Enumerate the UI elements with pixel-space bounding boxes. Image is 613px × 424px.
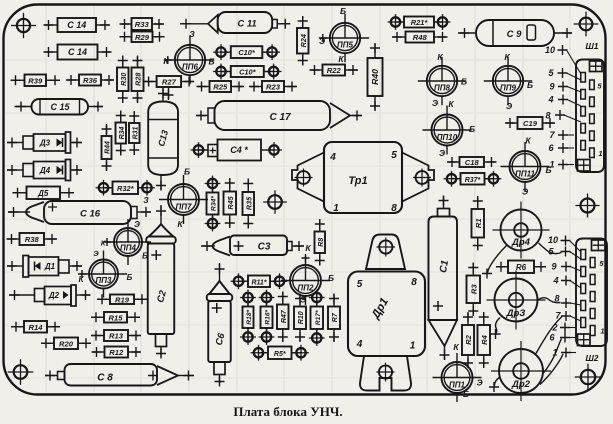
capacitor C6: [207, 263, 233, 387]
svg-text:ПП5: ПП5: [337, 41, 354, 50]
svg-text:Тр1: Тр1: [348, 175, 367, 187]
svg-text:R13: R13: [109, 332, 124, 341]
svg-text:4: 4: [329, 152, 336, 163]
svg-text:Б: Б: [127, 273, 133, 282]
svg-text:R6: R6: [516, 263, 527, 272]
node Ш2 pin 6: [549, 333, 575, 343]
svg-text:R12: R12: [109, 348, 124, 357]
resistor R5*: [251, 345, 309, 361]
resistor R13: [91, 330, 141, 341]
capacitor C18: [447, 157, 497, 167]
resistor R44: [102, 124, 112, 171]
svg-text:4: 4: [356, 339, 363, 350]
svg-text:ПП2: ПП2: [298, 284, 315, 293]
resistor R6: [496, 261, 546, 274]
diode Д4: [7, 160, 82, 181]
svg-text:К: К: [504, 52, 510, 62]
resistor R48: [392, 32, 448, 43]
svg-text:R14: R14: [29, 323, 44, 332]
resistor R8: [315, 219, 326, 266]
resistor R34: [116, 111, 127, 156]
svg-text:Б: Б: [184, 167, 190, 177]
resistor R11*: [231, 273, 288, 289]
resistor R47: [277, 292, 289, 343]
resistor R16*: [259, 290, 275, 345]
svg-text:R19: R19: [115, 295, 130, 304]
node Ш2 pin 8: [554, 294, 581, 309]
svg-text:8: 8: [554, 294, 559, 304]
resistor R25: [197, 81, 245, 92]
node Ш1 pin 5: [548, 68, 581, 80]
svg-text:C 15: C 15: [50, 102, 70, 112]
diode Д1: [7, 256, 82, 278]
svg-text:Б: Б: [469, 124, 475, 134]
svg-text:Б: Б: [461, 77, 467, 87]
svg-text:R36: R36: [83, 76, 98, 85]
resistor R18*: [240, 290, 256, 345]
svg-text:ПП4: ПП4: [120, 244, 137, 253]
svg-text:C 11: C 11: [237, 19, 256, 30]
resistor R19: [97, 294, 147, 304]
svg-text:R2: R2: [464, 334, 473, 344]
node Ш1 pin 8: [545, 110, 581, 122]
node Ш1 pin 4: [547, 95, 581, 107]
svg-text:R48: R48: [413, 33, 428, 42]
transistor ПП10: [423, 99, 476, 158]
svg-text:9: 9: [549, 82, 554, 92]
svg-text:R4: R4: [480, 334, 489, 344]
resistor R17*: [309, 290, 325, 346]
svg-text:R25: R25: [213, 83, 228, 92]
svg-text:R22: R22: [327, 66, 342, 75]
capacitor C14 (second): [44, 45, 112, 60]
svg-text:R7: R7: [332, 312, 339, 322]
svg-text:8: 8: [391, 203, 397, 214]
svg-text:R45: R45: [226, 195, 235, 209]
svg-text:R16*: R16*: [265, 309, 272, 324]
transistor ПП2: [281, 243, 334, 305]
svg-text:Э: Э: [300, 295, 306, 305]
svg-text:R30: R30: [119, 73, 128, 86]
svg-text:Э: Э: [476, 378, 482, 388]
svg-text:5: 5: [357, 279, 363, 290]
svg-text:8: 8: [545, 111, 550, 121]
svg-text:R20: R20: [59, 339, 74, 348]
resistor R20: [41, 338, 91, 350]
mounting hole bottom-right: [575, 364, 601, 390]
svg-text:R32*: R32*: [117, 184, 135, 193]
node Ш2 pin 5: [548, 247, 581, 260]
svg-text:ПП3: ПП3: [96, 276, 113, 285]
svg-text:R35: R35: [244, 196, 253, 210]
resistor R40: [368, 43, 383, 111]
svg-text:10: 10: [548, 235, 558, 245]
transistor ПП8: [418, 52, 467, 108]
resistor R39: [11, 75, 61, 87]
svg-text:R47: R47: [281, 309, 288, 323]
svg-text:C3: C3: [258, 242, 271, 253]
svg-text:ПП7: ПП7: [176, 203, 193, 212]
svg-text:R3: R3: [469, 284, 478, 294]
capacitor C19: [505, 117, 555, 129]
node Ш2 pin 10: [548, 235, 581, 252]
svg-text:C 14: C 14: [68, 47, 87, 57]
svg-text:Д5: Д5: [37, 189, 49, 198]
svg-text:4: 4: [552, 276, 558, 286]
svg-text:ПП10: ПП10: [437, 133, 458, 142]
resistor R12: [92, 347, 142, 358]
resistor R33: [120, 18, 165, 30]
node Ш2 pin 9: [551, 262, 581, 272]
wire Др3 to Ш2 pin 8: [538, 298, 561, 303]
resistor R35: [243, 179, 255, 229]
capacitor C11: [180, 12, 290, 33]
node via A: [263, 190, 287, 214]
diode Д2: [9, 285, 91, 306]
capacitor C8: [45, 364, 194, 386]
node Ш1 pin 7: [549, 130, 574, 140]
resistor R30: [117, 56, 129, 104]
mounting hole bottom-left: [8, 359, 34, 385]
resistor R2: [462, 312, 474, 368]
wire: [164, 87, 174, 100]
svg-text:R5*: R5*: [274, 351, 286, 358]
capacitor C4*: [191, 140, 282, 161]
resistor R15: [91, 312, 140, 323]
resistor R1: [472, 196, 485, 251]
transformer Тр1: [292, 142, 434, 214]
svg-text:Др2: Др2: [511, 379, 531, 390]
svg-text:R29: R29: [135, 33, 150, 42]
svg-text:Б: Б: [527, 80, 533, 90]
svg-text:К: К: [177, 219, 183, 229]
mounting hole top-right: [574, 12, 599, 37]
mounting hole top-left: [11, 13, 36, 38]
resistor R27: [144, 76, 195, 87]
svg-text:ДрЗ: ДрЗ: [506, 308, 526, 319]
resistor R34*: [205, 176, 221, 232]
svg-text:Э: Э: [522, 187, 528, 197]
wire Др2 to Ш2 pin 6: [544, 339, 562, 374]
resistor R37*: [444, 171, 502, 187]
svg-text:R34: R34: [119, 126, 126, 139]
svg-text:Б: Б: [340, 6, 346, 16]
svg-text:4: 4: [547, 95, 553, 105]
capacitor C3: [201, 236, 304, 256]
resistor R10: [294, 294, 306, 343]
svg-text:Д3: Д3: [39, 139, 51, 148]
node Ш1 pin 6: [548, 143, 574, 153]
svg-text:R8: R8: [318, 238, 325, 247]
svg-text:Э: Э: [506, 101, 512, 111]
node Ш1 pin 9: [549, 82, 581, 93]
svg-text:R34*: R34*: [211, 196, 218, 211]
connector Ш2: [576, 239, 607, 364]
choke Др2: [491, 341, 551, 401]
resistor R3: [467, 263, 481, 317]
svg-text:К: К: [525, 136, 531, 146]
node Ш1 pin 1: [549, 160, 574, 170]
svg-text:R18*: R18*: [246, 309, 253, 324]
choke Др4: [493, 202, 550, 259]
svg-text:1: 1: [598, 149, 602, 158]
capacitor C10*: [213, 44, 280, 60]
wire Др2 to Ш2 pin 7: [536, 317, 562, 354]
svg-text:R23: R23: [266, 83, 281, 92]
svg-text:R40: R40: [370, 69, 380, 85]
svg-text:Б: Б: [208, 57, 214, 67]
resistor R32*: [96, 180, 155, 196]
resistor R7: [328, 294, 340, 343]
svg-text:З: З: [143, 195, 149, 205]
connector Ш1: [576, 41, 604, 172]
svg-text:2: 2: [551, 323, 557, 333]
svg-text:8: 8: [411, 277, 417, 288]
resistor R23: [249, 81, 297, 92]
svg-text:Б: Б: [463, 389, 469, 399]
svg-text:C10*: C10*: [238, 48, 256, 57]
svg-text:Др4: Др4: [511, 237, 531, 248]
svg-text:R39: R39: [28, 76, 43, 85]
svg-text:R24: R24: [299, 34, 308, 47]
svg-text:Э: Э: [319, 36, 325, 46]
svg-text:К: К: [437, 52, 443, 62]
resistor R4: [478, 312, 491, 368]
resistor R21*: [388, 14, 451, 30]
svg-text:R11*: R11*: [251, 279, 266, 286]
resistor R28: [132, 56, 144, 104]
resistor R22: [310, 65, 359, 76]
svg-text:C10*: C10*: [239, 68, 257, 77]
svg-text:К: К: [453, 342, 459, 352]
svg-text:Плата блока УНЧ.: Плата блока УНЧ.: [233, 404, 342, 419]
capacitor C10* (second): [213, 64, 281, 80]
node via B: [576, 194, 600, 218]
svg-text:ПП9: ПП9: [500, 84, 517, 93]
capacitor C14: [44, 18, 111, 32]
svg-text:З: З: [189, 29, 195, 39]
svg-text:R28: R28: [134, 73, 143, 86]
svg-text:Д1: Д1: [44, 262, 56, 271]
svg-text:ПП11: ПП11: [515, 170, 535, 179]
diode Д3: [7, 132, 82, 153]
svg-text:Э: Э: [134, 220, 140, 229]
svg-text:R44: R44: [105, 141, 112, 154]
resistor R38: [7, 233, 58, 245]
capacitor C13: [148, 88, 178, 191]
node Ш2 pin 4: [552, 276, 581, 289]
svg-text:C18: C18: [465, 158, 480, 167]
svg-text:Э: Э: [432, 98, 438, 108]
svg-text:1: 1: [333, 203, 339, 214]
capacitor C16: [8, 201, 151, 224]
resistor R36: [66, 75, 114, 86]
svg-text:Э: Э: [439, 148, 445, 158]
transistor ПП3: [78, 249, 133, 298]
wire Др2 lower-left: [489, 377, 500, 392]
svg-text:R15: R15: [109, 313, 124, 322]
capacitor C2: [146, 205, 176, 359]
transistor ПП11: [501, 136, 552, 197]
svg-text:C 9: C 9: [507, 29, 523, 40]
svg-text:R27: R27: [162, 78, 177, 87]
choke Др3: [487, 271, 546, 330]
wire Др4 to R3 area: [482, 245, 507, 279]
svg-text:Д2: Д2: [48, 291, 60, 300]
node Ш2 pin 2: [551, 323, 575, 333]
svg-text:R33: R33: [135, 20, 150, 29]
svg-text:Б: Б: [328, 273, 334, 283]
svg-text:C19: C19: [523, 119, 538, 128]
resistor R24: [297, 16, 309, 66]
wire Др3 lower-left: [491, 318, 501, 340]
capacitor C9: [458, 20, 572, 46]
svg-text:R10: R10: [298, 311, 305, 324]
svg-text:C 14: C 14: [67, 20, 86, 30]
wire Др4 to Ш2 pin 5: [539, 243, 562, 254]
svg-text:1: 1: [552, 348, 557, 358]
svg-text:ПП8: ПП8: [434, 84, 451, 93]
resistor R31: [129, 111, 140, 155]
capacitor C15: [15, 99, 104, 115]
resistor R14: [11, 321, 60, 333]
svg-text:Ш2: Ш2: [585, 353, 598, 363]
transistor ПП4: [101, 219, 151, 265]
capacitor C17: [196, 101, 362, 130]
transistor ПП6: [163, 29, 214, 84]
svg-text:R21*: R21*: [411, 18, 429, 27]
svg-text:C1: C1: [438, 259, 451, 274]
svg-text:R38: R38: [25, 235, 40, 244]
svg-text:1: 1: [410, 341, 416, 352]
svg-text:R1: R1: [474, 218, 483, 228]
svg-text:К: К: [338, 54, 344, 64]
transistor ПП5: [319, 6, 369, 64]
capacitor C1: [429, 196, 458, 361]
svg-text:9: 9: [551, 262, 556, 272]
node Ш2 pin 1: [552, 348, 576, 358]
transistor ПП9: [484, 52, 533, 111]
svg-text:1: 1: [600, 327, 604, 336]
svg-text:C 17: C 17: [269, 112, 291, 123]
transistor ПП1: [433, 342, 483, 402]
node Ш1 pin 10: [545, 45, 581, 74]
svg-text:К: К: [163, 56, 169, 66]
svg-text:R17*: R17*: [315, 310, 322, 325]
resistor R29: [120, 32, 165, 43]
svg-text:5: 5: [391, 150, 397, 161]
transistor ПП7: [143, 167, 208, 230]
node Ш2 pin 7: [555, 311, 581, 322]
svg-text:C 8: C 8: [97, 373, 113, 384]
choke Др1: [348, 235, 425, 391]
svg-text:Ш1: Ш1: [585, 41, 598, 51]
svg-text:R37*: R37*: [465, 177, 481, 184]
diode Д5: [13, 187, 75, 200]
svg-text:К: К: [448, 99, 454, 109]
svg-text:C 16: C 16: [80, 209, 101, 220]
svg-text:ПП6: ПП6: [182, 63, 199, 72]
wire Др2 to Ш2 pin 1: [540, 354, 563, 385]
svg-text:Б: Б: [545, 165, 551, 175]
svg-text:Э: Э: [93, 249, 99, 258]
svg-text:К: К: [305, 243, 311, 253]
resistor R45: [224, 178, 237, 228]
svg-text:R31: R31: [132, 126, 139, 139]
svg-text:C4 *: C4 *: [230, 145, 248, 155]
svg-text:10: 10: [545, 45, 555, 55]
svg-text:Д4: Д4: [39, 166, 51, 175]
